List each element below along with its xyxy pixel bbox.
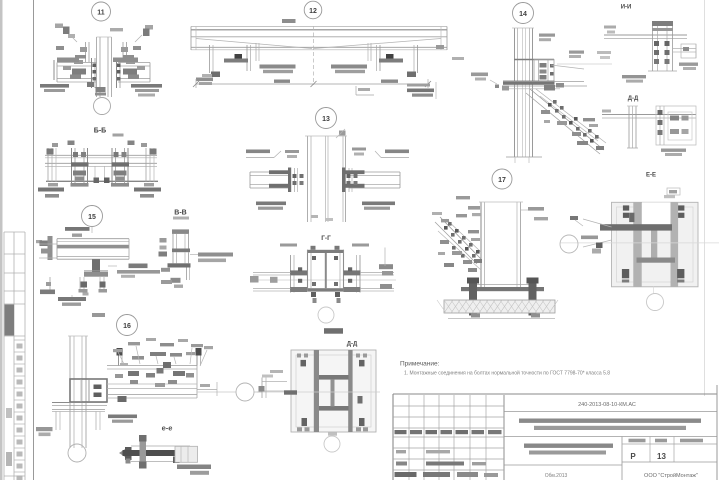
drawing frame left border line	[33, 0, 35, 480]
section B-B bottom-right label	[134, 188, 161, 198]
diagonal brace of node 14	[526, 89, 606, 154]
title block outer border	[393, 385, 717, 480]
corner bolt clusters	[623, 205, 629, 210]
column of node 11	[97, 37, 112, 97]
svg-text:Е-Е: Е-Е	[646, 173, 656, 179]
brace gusset smudges	[541, 110, 550, 114]
view label e-e (bottom)	[162, 424, 173, 433]
left small texts of node 17	[432, 196, 481, 216]
svg-text:15: 15	[88, 214, 96, 221]
svg-text:В-В: В-В	[174, 210, 186, 217]
right leader label of node 15	[108, 264, 160, 278]
section circle below node 16	[68, 444, 86, 462]
view 4-4 column with plate	[648, 21, 677, 71]
svg-text:1. Монтажные соединения на бол: 1. Монтажные соединения на болтах нормал…	[404, 370, 610, 377]
center dashed axis of truss 12	[313, 26, 315, 85]
label texts under right beam	[131, 84, 162, 97]
section G-G right connection plate	[344, 255, 361, 293]
plate view label d-d (bottom middle)	[347, 342, 358, 348]
left margin stamp table	[4, 232, 25, 480]
corner bolts inside body	[312, 256, 316, 260]
node marker 14	[513, 3, 534, 24]
view 4-4 right leader text	[679, 63, 698, 71]
section G-G axis line	[252, 279, 396, 281]
bolt marks left beam	[72, 69, 86, 75]
title block stage-sheet grid	[622, 437, 717, 463]
beam of node 16	[107, 348, 236, 402]
view label D-D	[628, 96, 639, 102]
section V-V right label	[190, 253, 233, 263]
main dark bar	[600, 224, 672, 230]
small marks below right of truss	[436, 45, 464, 60]
node circle left of plate	[236, 383, 262, 401]
svg-text:17: 17	[498, 177, 506, 184]
small labels above section G-G	[280, 244, 369, 247]
left splice plate with bolts	[288, 168, 291, 193]
svg-text:Обм.2013: Обм.2013	[545, 473, 568, 479]
left margin dark cell (inv no)	[5, 305, 15, 336]
bottom dimension line of truss 12	[193, 79, 431, 88]
annotation upper-left of node 11	[55, 24, 123, 43]
bolted plate of node 14	[514, 60, 554, 83]
sag diagonals of truss 12	[196, 39, 441, 49]
node marker 11	[92, 2, 111, 21]
leaders and marks left of right plate	[570, 216, 612, 254]
left small text of node 14	[471, 73, 497, 85]
section B-B right end post	[144, 148, 157, 186]
right gusset connection of truss 12	[368, 43, 418, 77]
dimension leader right of beam 16	[197, 382, 217, 396]
left beam of node 11	[57, 42, 97, 88]
end plate right with bolts	[116, 58, 118, 88]
sheet left scan edge	[0, 0, 3, 480]
view D-D left small text	[602, 110, 611, 113]
svg-text:11: 11	[97, 10, 105, 17]
title block organization cell	[644, 472, 698, 479]
bolt marks on beam 16	[128, 371, 139, 376]
section circle below G-G	[318, 307, 334, 323]
lower-right angle annotation of truss 12	[356, 86, 374, 95]
end verticals of truss 12	[191, 27, 447, 51]
node marker 15	[36, 206, 103, 244]
title block description cell	[504, 419, 717, 437]
leader label upper-right of node 14	[551, 51, 584, 70]
marks below column 11	[95, 93, 106, 96]
title block signature rows	[395, 450, 499, 477]
stubs above body corners	[311, 246, 316, 250]
view D-D beam lines	[602, 115, 696, 119]
node marker 16	[117, 315, 138, 336]
base strip of node 16	[52, 403, 107, 431]
left bracket of node 16	[36, 427, 53, 436]
svg-text:Д-Д: Д-Д	[347, 342, 358, 348]
node marker 17	[492, 169, 512, 189]
view D-D left post	[627, 106, 638, 148]
right extension line of node 14	[557, 51, 612, 64]
svg-text:Г-Г: Г-Г	[321, 235, 331, 242]
label texts under left beam	[40, 84, 69, 92]
title block doc number cell	[504, 402, 717, 412]
top chord lines of truss 12	[191, 27, 447, 37]
section G-G left beam flanges	[250, 273, 291, 292]
diagonal brace of node 17	[435, 214, 482, 272]
small top mark of right plate	[664, 195, 675, 198]
bottom label of node 16	[108, 415, 137, 423]
left margin small cells ladder	[14, 339, 25, 341]
column bottom line of node 14	[506, 157, 542, 163]
section V-V left marks	[159, 238, 168, 257]
side plate element left of plate	[259, 370, 298, 398]
bottom label of view e-e	[177, 465, 211, 475]
svg-text:Б-Б: Б-Б	[94, 128, 106, 135]
bottom label of node 15	[58, 295, 105, 317]
bottom label of section G-G	[324, 328, 343, 334]
left text block of truss 12	[260, 65, 296, 74]
svg-text:И-И: И-И	[621, 5, 632, 11]
svg-text:Р: Р	[630, 452, 636, 461]
foundation hatch of node 17	[437, 300, 558, 319]
svg-text:12: 12	[309, 8, 317, 15]
axis line through plate	[257, 391, 380, 393]
bottom-left angle of node 15	[40, 277, 55, 294]
section V-V column stub profile	[161, 229, 191, 288]
base plate plan body (bottom middle)	[291, 350, 376, 436]
left beam of node 13	[250, 168, 304, 193]
view label E-E	[646, 173, 656, 179]
section G-G right beam flanges	[360, 248, 394, 292]
right text block of truss 12	[331, 65, 367, 74]
section B-B bottom-left label	[38, 188, 64, 198]
title block header row smudges (izm list ndok podp data)	[395, 430, 502, 434]
top-left leader label of node 13	[246, 150, 281, 158]
stiffener stub above right beam	[122, 42, 124, 62]
title block middle cell texts	[504, 437, 622, 480]
top-right leader label of node 13	[375, 150, 409, 158]
view 4-4 beam lines	[604, 35, 687, 39]
notes heading	[400, 361, 440, 368]
title block left grid rows	[393, 406, 504, 470]
base plate of node 17	[461, 285, 544, 292]
horizontal member of node 14	[495, 81, 587, 91]
column of node 14	[512, 28, 534, 157]
hanger below beam 15	[79, 259, 109, 295]
label bar above beam 15	[65, 227, 90, 237]
connection box of node 16	[70, 379, 107, 402]
bottom-right text of node 13	[362, 202, 395, 210]
svg-text:240-2013-08-10-КМ.АС: 240-2013-08-10-КМ.АС	[578, 402, 636, 408]
column of node 13	[305, 136, 347, 222]
small annotation box right	[667, 188, 680, 195]
plate channels vertical	[314, 350, 319, 432]
right splice plate with bolts	[342, 168, 345, 193]
section circle below node 11	[94, 98, 111, 115]
plate cross bars	[319, 375, 349, 380]
node circle left of right plate	[560, 235, 578, 253]
svg-text:16: 16	[123, 323, 131, 330]
annotation cluster above beam 16	[113, 338, 213, 387]
section circle below plate	[324, 436, 340, 452]
brace gusset smudges 17	[440, 240, 449, 244]
view 4-4 right bracket	[673, 44, 697, 58]
right beam of node 13	[342, 168, 400, 193]
left support bracket of node 15	[39, 236, 57, 260]
view D-D bottom label	[661, 149, 686, 157]
anchor bolts of node 17	[467, 278, 539, 316]
section G-G left connection plate	[290, 255, 307, 293]
svg-text:13: 13	[322, 116, 330, 123]
node marker 12	[304, 1, 322, 19]
marks near column bottom 13	[311, 215, 333, 221]
svg-text:Примечание:: Примечание:	[400, 361, 440, 368]
lower chord lines of truss 12	[191, 47, 447, 50]
svg-text:ООО "СтройМонтаж": ООО "СтройМонтаж"	[644, 472, 698, 479]
view 4-4 left marks	[604, 26, 616, 34]
section B-B top tick marks	[52, 141, 147, 148]
beam of node 15	[57, 239, 129, 260]
left gusset connection of truss 12	[196, 43, 259, 85]
column of node 17	[479, 202, 523, 287]
annotation upper-right of node 11	[135, 25, 153, 42]
center web	[651, 229, 657, 259]
view label 4-4	[621, 5, 632, 11]
right annotation cluster of truss 12	[407, 82, 436, 99]
section label B-B	[94, 128, 124, 137]
dimension text above chord	[282, 19, 296, 23]
node marker 13	[316, 108, 337, 129]
section label G-G	[321, 235, 331, 242]
inner top labels of node 13	[285, 148, 366, 159]
section B-B left bolt tower	[71, 148, 89, 187]
section B-B beam flange lines	[45, 155, 158, 181]
view D-D right plate cluster	[656, 106, 696, 145]
section G-G column plan body	[307, 246, 344, 303]
notes line 1	[404, 370, 610, 377]
svg-text:14: 14	[519, 11, 527, 18]
right beam of node 11	[54, 42, 150, 92]
section label V-V	[173, 210, 189, 220]
bolts below body	[311, 292, 316, 297]
svg-text:Д-Д: Д-Д	[628, 96, 639, 102]
plate corner bolts	[297, 354, 301, 358]
section B-B left end post	[47, 148, 59, 186]
view 4-4 bottom label	[622, 75, 646, 83]
svg-text:13: 13	[657, 452, 666, 461]
section B-B right bolt tower	[111, 148, 129, 187]
label right of column 14	[539, 34, 555, 42]
brace bolt field 17	[444, 226, 448, 230]
section circle below right plate	[647, 294, 664, 311]
tick right of node 13	[336, 129, 346, 138]
channel flanges vertical	[633, 202, 641, 286]
svg-text:е-е: е-е	[162, 424, 173, 433]
stiffener stub above left beam	[85, 42, 87, 62]
top-right marks of node 17	[521, 207, 549, 220]
column of node 16	[68, 336, 88, 448]
axis through right plate	[560, 243, 719, 294]
bottom-left text of node 13	[256, 202, 286, 210]
brace bolt field	[548, 103, 552, 107]
base plate plan body (bottom right)	[600, 202, 698, 286]
section B-B center bottom bolts	[94, 166, 110, 183]
view 4-4 bolts	[654, 41, 659, 46]
drawing frame right border line	[704, 0, 706, 396]
end plate left with bolts	[91, 58, 93, 88]
ground line below foundation	[448, 318, 555, 320]
bolt assembly e-e	[119, 435, 198, 469]
title block left grid columns	[409, 395, 504, 480]
